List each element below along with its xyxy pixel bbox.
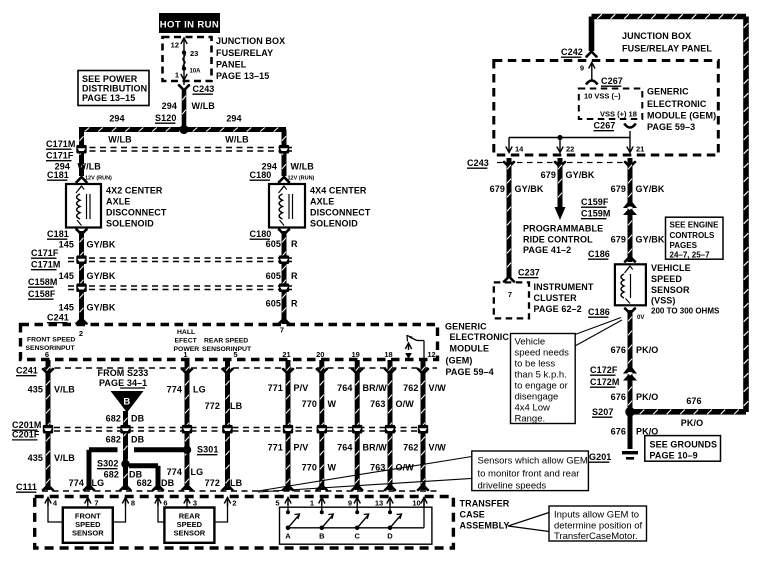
svg-text:to monitor front and rear: to monitor front and rear <box>478 469 580 480</box>
svg-text:C171M: C171M <box>46 139 76 149</box>
svg-text:R: R <box>291 299 298 309</box>
svg-text:682: 682 <box>106 414 121 424</box>
svg-text:V/W: V/W <box>429 443 447 453</box>
svg-text:C267: C267 <box>594 121 616 131</box>
svg-text:Range.: Range. <box>515 414 546 425</box>
svg-text:21: 21 <box>636 145 644 154</box>
connector C242 <box>586 52 597 58</box>
svg-text:772: 772 <box>205 478 220 488</box>
svg-text:GENERIC: GENERIC <box>445 322 487 332</box>
svg-text:TRANSFER: TRANSFER <box>460 499 510 509</box>
transfer case motor position switch bank <box>280 507 432 544</box>
GEM (right) box outline <box>494 61 719 156</box>
svg-text:speed needs: speed needs <box>515 348 570 359</box>
svg-text:R: R <box>291 271 298 281</box>
wire 772 LB pin5 to C111 pin2 <box>225 360 230 490</box>
wire 294 W/LB horizontal bus <box>79 127 286 132</box>
svg-text:GY/BK: GY/BK <box>515 184 544 194</box>
svg-text:PAGE 13–15: PAGE 13–15 <box>216 71 269 81</box>
svg-text:GY/BK: GY/BK <box>636 184 665 194</box>
GEM internal wiring to pins 14 22 21 <box>629 131 631 138</box>
svg-text:C241: C241 <box>16 366 38 376</box>
wire W/LB right drop to C180 <box>282 130 287 177</box>
svg-text:FRONT SPEED: FRONT SPEED <box>27 337 75 344</box>
svg-text:605: 605 <box>266 271 281 281</box>
svg-text:5: 5 <box>275 499 279 508</box>
svg-text:W: W <box>328 399 337 409</box>
svg-text:770: 770 <box>302 399 317 409</box>
svg-text:C: C <box>354 532 360 541</box>
svg-text:9: 9 <box>580 64 584 73</box>
wire 676 PK/O from right feed to S207 <box>634 409 746 415</box>
svg-text:770: 770 <box>302 463 317 473</box>
svg-text:PAGE 34–1: PAGE 34–1 <box>99 378 147 388</box>
solenoid 4x4 center axle disconnect <box>269 184 305 228</box>
svg-text:C181: C181 <box>47 170 69 180</box>
connector C171M / C171F dashed lines upper <box>79 147 292 149</box>
svg-text:VEHICLE: VEHICLE <box>651 263 691 273</box>
svg-text:REAR SPEED: REAR SPEED <box>204 338 248 345</box>
svg-text:C172F: C172F <box>590 365 618 375</box>
svg-text:B: B <box>319 532 325 541</box>
svg-text:V/LB: V/LB <box>54 453 75 463</box>
svg-text:PK/O: PK/O <box>636 345 658 355</box>
wire 763 O/W pin18 to transfer case pin13 <box>388 360 393 490</box>
wire 770 W pin20 to transfer case pin1 <box>319 360 324 490</box>
svg-text:LG: LG <box>92 478 105 488</box>
svg-text:682: 682 <box>137 478 152 488</box>
svg-text:Inputs allow GEM to: Inputs allow GEM to <box>554 510 639 521</box>
svg-text:PAGE 41–2: PAGE 41–2 <box>523 245 571 255</box>
svg-text:145: 145 <box>59 271 74 281</box>
svg-text:C186: C186 <box>588 249 610 259</box>
svg-text:22: 22 <box>566 145 574 154</box>
svg-text:C186: C186 <box>588 307 610 317</box>
svg-text:Vehicle: Vehicle <box>515 337 546 348</box>
svg-text:PROGRAMMABLE: PROGRAMMABLE <box>523 224 603 234</box>
VSS dashed sub-box in GEM <box>579 89 643 120</box>
svg-text:W/LB: W/LB <box>225 135 249 145</box>
svg-text:771: 771 <box>268 443 283 453</box>
svg-text:GY/BK: GY/BK <box>566 170 595 180</box>
svg-text:PAGE 59–3: PAGE 59–3 <box>647 122 695 132</box>
svg-text:C237: C237 <box>518 268 540 278</box>
svg-text:C181: C181 <box>47 229 69 239</box>
svg-text:1: 1 <box>175 71 179 80</box>
svg-text:4X2 CENTER: 4X2 CENTER <box>106 186 163 196</box>
svg-text:TransferCaseMotor.: TransferCaseMotor. <box>554 531 638 542</box>
svg-text:LG: LG <box>193 385 206 395</box>
svg-text:ASSEMBLY: ASSEMBLY <box>460 521 510 531</box>
svg-text:2: 2 <box>232 499 236 508</box>
svg-text:W/LB: W/LB <box>291 162 315 172</box>
position switch C <box>355 526 360 531</box>
wire 682 DB from triangle to C111 pin8 <box>123 411 128 490</box>
svg-text:DB: DB <box>131 435 145 445</box>
svg-text:PAGE 10–9: PAGE 10–9 <box>650 451 698 461</box>
junction box fuse/relay panel (left) outline <box>163 37 212 81</box>
svg-text:10: 10 <box>412 499 420 508</box>
svg-text:SENSOR: SENSOR <box>72 529 104 538</box>
svg-text:C243: C243 <box>193 84 215 94</box>
svg-text:V/W: V/W <box>429 383 447 393</box>
svg-text:than 5 k.p.h.: than 5 k.p.h. <box>515 370 567 381</box>
svg-text:S301: S301 <box>197 445 218 455</box>
svg-text:SPEED: SPEED <box>651 274 682 284</box>
wire 682 DB branch from S302 to C111 pin6 <box>129 463 158 468</box>
svg-text:SEE GROUNDS: SEE GROUNDS <box>650 440 718 450</box>
svg-text:C243: C243 <box>467 158 489 168</box>
svg-text:676: 676 <box>686 396 701 406</box>
svg-text:676: 676 <box>611 427 626 437</box>
svg-text:AXLE: AXLE <box>310 197 334 207</box>
svg-text:20: 20 <box>316 350 324 359</box>
svg-text:2: 2 <box>79 329 83 338</box>
svg-text:12V (RUN): 12V (RUN) <box>85 176 112 182</box>
svg-text:8: 8 <box>131 499 135 508</box>
svg-text:14: 14 <box>515 145 524 154</box>
svg-text:10 VSS (–): 10 VSS (–) <box>584 92 621 101</box>
svg-text:5: 5 <box>233 350 237 359</box>
svg-text:771: 771 <box>268 383 283 393</box>
svg-text:S207: S207 <box>592 407 613 417</box>
svg-text:7: 7 <box>280 326 284 335</box>
connector C241 right above GEM pin 7 <box>279 319 290 325</box>
svg-text:682: 682 <box>106 435 121 445</box>
svg-text:C180: C180 <box>250 229 272 239</box>
svg-text:SENSOR: SENSOR <box>651 285 690 295</box>
svg-text:LB: LB <box>230 401 243 411</box>
svg-text:G201: G201 <box>589 452 611 462</box>
svg-text:C111: C111 <box>16 482 37 492</box>
svg-text:P/V: P/V <box>294 383 309 393</box>
rear speed sensor <box>164 508 214 543</box>
svg-text:676: 676 <box>611 345 626 355</box>
svg-text:PAGES: PAGES <box>670 241 698 250</box>
svg-text:GENERIC: GENERIC <box>647 87 689 97</box>
svg-text:19: 19 <box>352 350 360 359</box>
svg-text:6: 6 <box>45 350 49 359</box>
svg-text:C201F: C201F <box>12 430 40 440</box>
GEM internal switch near pin 12 <box>423 341 425 359</box>
svg-text:DB: DB <box>131 414 145 424</box>
wire 676 PK/O VSS to C172 <box>628 310 633 410</box>
svg-text:Sensors which allow GEM: Sensors which allow GEM <box>478 456 588 467</box>
connector C267 upper <box>586 81 598 85</box>
svg-text:SENSORINPUT: SENSORINPUT <box>202 346 252 353</box>
svg-text:R: R <box>291 239 298 249</box>
svg-text:SOLENOID: SOLENOID <box>310 219 358 229</box>
svg-text:C158M: C158M <box>28 277 58 287</box>
svg-text:O/W: O/W <box>396 399 415 409</box>
svg-text:7: 7 <box>508 290 512 299</box>
svg-text:HALL: HALL <box>177 329 195 336</box>
svg-text:294: 294 <box>162 101 177 111</box>
svg-text:AXLE: AXLE <box>106 197 130 207</box>
svg-text:EFECT: EFECT <box>175 338 198 345</box>
svg-text:1: 1 <box>183 350 187 359</box>
svg-text:SENSOR: SENSOR <box>174 529 206 538</box>
svg-text:C180: C180 <box>250 170 272 180</box>
svg-text:294: 294 <box>226 114 241 124</box>
connector C201M / C201F dashed lines <box>54 427 425 429</box>
svg-text:772: 772 <box>205 401 220 411</box>
svg-text:C267: C267 <box>601 76 623 86</box>
fuse 23 10A inside junction box <box>183 39 185 79</box>
svg-text:DB: DB <box>161 478 175 488</box>
svg-text:679: 679 <box>611 184 626 194</box>
wire 605 R segment 1 <box>282 231 287 324</box>
svg-text:679: 679 <box>490 184 505 194</box>
wire 145 GY/BK segment 1 <box>79 231 84 324</box>
svg-text:CASE: CASE <box>460 510 485 520</box>
wire 679 GY/BK to instrument cluster <box>507 158 512 277</box>
svg-text:GY/BK: GY/BK <box>636 235 665 245</box>
svg-text:18: 18 <box>384 350 392 359</box>
svg-text:JUNCTION BOX: JUNCTION BOX <box>622 31 691 41</box>
front speed sensor <box>63 508 113 543</box>
splice S302 on 682 DB <box>121 460 129 468</box>
svg-text:24–7, 25–7: 24–7, 25–7 <box>670 251 711 260</box>
svg-text:SEE ENGINE: SEE ENGINE <box>670 221 720 230</box>
svg-text:C159F: C159F <box>581 197 609 207</box>
svg-text:to be less: to be less <box>515 359 556 370</box>
svg-text:D: D <box>387 532 393 541</box>
callout vehicle speed needs <box>575 318 621 335</box>
connector C267 lower <box>624 124 636 128</box>
wire 435 V/LB pin6 to C111 pin4 <box>46 360 51 490</box>
svg-text:determine position of: determine position of <box>554 521 643 532</box>
callout inputs allow GEM <box>508 513 549 532</box>
svg-text:764: 764 <box>337 443 352 453</box>
svg-text:SENSORINPUT: SENSORINPUT <box>26 345 76 352</box>
svg-text:S120: S120 <box>155 113 176 123</box>
svg-text:435: 435 <box>28 385 43 395</box>
power tag HOT IN RUN <box>159 13 220 33</box>
svg-text:INSTRUMENT: INSTRUMENT <box>534 282 594 292</box>
svg-text:P/V: P/V <box>294 443 309 453</box>
wire 679 GY/BK to VSS <box>628 158 633 262</box>
svg-text:676: 676 <box>611 392 626 402</box>
svg-text:PAGE 62–2: PAGE 62–2 <box>534 304 582 314</box>
svg-text:9: 9 <box>348 499 352 508</box>
svg-text:1: 1 <box>310 499 314 508</box>
wire 774 LG pin1 to C111 pin3 with splice S301 <box>185 360 190 490</box>
svg-text:10A: 10A <box>190 69 202 75</box>
svg-text:200 TO 300 OHMS: 200 TO 300 OHMS <box>651 307 720 316</box>
svg-text:C171F: C171F <box>31 248 59 258</box>
svg-text:DISTRIBUTION: DISTRIBUTION <box>82 84 147 94</box>
svg-text:7: 7 <box>94 499 98 508</box>
svg-text:294: 294 <box>109 114 124 124</box>
svg-text:763: 763 <box>370 399 385 409</box>
svg-text:W/LB: W/LB <box>78 162 102 172</box>
svg-text:C158F: C158F <box>28 289 56 299</box>
svg-text:762: 762 <box>403 383 418 393</box>
svg-text:CONTROLS: CONTROLS <box>670 231 716 240</box>
svg-text:C159M: C159M <box>581 209 611 219</box>
svg-text:21: 21 <box>282 350 290 359</box>
svg-text:MODULE: MODULE <box>450 344 490 354</box>
svg-text:GY/BK: GY/BK <box>87 271 116 281</box>
svg-text:PAGE 59–4: PAGE 59–4 <box>446 367 494 377</box>
svg-text:SEE POWER: SEE POWER <box>82 74 138 84</box>
note box SEE GROUNDS <box>645 436 721 462</box>
svg-text:774: 774 <box>167 385 182 395</box>
svg-text:145: 145 <box>59 240 74 250</box>
svg-text:LB: LB <box>230 478 243 488</box>
svg-text:C242: C242 <box>561 47 583 57</box>
svg-text:V/LB: V/LB <box>54 385 75 395</box>
connector C111 dashed line <box>42 490 437 492</box>
svg-text:C172M: C172M <box>590 377 620 387</box>
transfer case assembly box <box>35 497 454 549</box>
svg-text:C171F: C171F <box>46 151 74 161</box>
svg-text:LG: LG <box>191 467 204 477</box>
svg-text:12V (RUN): 12V (RUN) <box>288 176 315 182</box>
svg-text:435: 435 <box>28 453 43 463</box>
note box SEE ENGINE CONTROLS <box>666 217 724 259</box>
svg-text:3: 3 <box>193 499 197 508</box>
svg-text:W/LB: W/LB <box>192 101 216 111</box>
svg-text:MODULE (GEM): MODULE (GEM) <box>647 111 716 121</box>
svg-text:HOT IN RUN: HOT IN RUN <box>160 20 219 31</box>
wire 762 V/W pin12 to transfer case pin10 <box>421 360 426 490</box>
svg-text:ELECTRONIC: ELECTRONIC <box>450 332 510 342</box>
svg-text:(VSS): (VSS) <box>651 296 676 306</box>
svg-text:PANEL: PANEL <box>216 60 247 70</box>
svg-text:6: 6 <box>163 499 167 508</box>
connector C243 <box>183 81 185 85</box>
svg-text:GY/BK: GY/BK <box>87 303 116 313</box>
svg-text:FUSE/RELAY: FUSE/RELAY <box>216 48 273 58</box>
svg-text:FUSE/RELAY PANEL: FUSE/RELAY PANEL <box>622 44 712 54</box>
svg-text:GY/BK: GY/BK <box>87 240 116 250</box>
svg-text:DISCONNECT: DISCONNECT <box>310 208 371 218</box>
svg-text:23: 23 <box>190 49 198 58</box>
svg-text:774: 774 <box>69 478 84 488</box>
svg-text:ELECTRONIC: ELECTRONIC <box>647 99 707 109</box>
svg-text:0V: 0V <box>637 315 644 321</box>
svg-text:RIDE CONTROL: RIDE CONTROL <box>523 235 593 245</box>
svg-text:12: 12 <box>427 350 435 359</box>
svg-text:145: 145 <box>59 303 74 313</box>
svg-text:B: B <box>123 397 130 408</box>
svg-text:13: 13 <box>375 499 383 508</box>
wire 771 P/V pin21 to transfer case pin5 <box>286 360 291 490</box>
svg-text:S302: S302 <box>97 459 118 469</box>
svg-text:682: 682 <box>104 470 119 480</box>
svg-text:VSS (+) 18: VSS (+) 18 <box>600 110 637 119</box>
svg-text:774: 774 <box>167 467 182 477</box>
connector C171F / C171M dashed lines lower <box>68 257 292 259</box>
wire 679 GY/BK to programmable ride control <box>558 158 563 210</box>
GEM module strip box <box>21 325 438 360</box>
svg-text:12: 12 <box>171 41 179 50</box>
svg-text:DISCONNECT: DISCONNECT <box>106 208 167 218</box>
svg-text:SOLENOID: SOLENOID <box>106 219 154 229</box>
svg-text:driveline speeds: driveline speeds <box>478 481 547 492</box>
svg-text:4x4 Low: 4x4 Low <box>515 403 551 414</box>
svg-text:CLUSTER: CLUSTER <box>534 293 578 303</box>
svg-text:W/LB: W/LB <box>108 135 132 145</box>
svg-text:PAGE 13–15: PAGE 13–15 <box>82 93 135 103</box>
wire 764 BR/W pin19 to transfer case pin9 <box>355 360 360 490</box>
svg-text:BR/W: BR/W <box>363 443 388 453</box>
svg-text:679: 679 <box>541 170 556 180</box>
svg-text:4X4 CENTER: 4X4 CENTER <box>310 186 367 196</box>
svg-text:764: 764 <box>337 383 352 393</box>
svg-text:(GEM): (GEM) <box>446 356 473 366</box>
svg-text:A: A <box>285 532 291 541</box>
wire hot feed top right <box>592 14 747 20</box>
svg-text:679: 679 <box>611 235 626 245</box>
svg-text:762: 762 <box>403 443 418 453</box>
svg-text:FROM S233: FROM S233 <box>98 368 149 378</box>
svg-text:C201M: C201M <box>12 420 42 430</box>
connector C241 below GEM dashed line <box>44 367 437 369</box>
svg-text:C171M: C171M <box>31 260 61 270</box>
svg-text:W: W <box>328 463 337 473</box>
connector C158M / C158F dashed lines <box>68 285 292 287</box>
position switch D <box>388 526 393 531</box>
svg-text:PK/O: PK/O <box>681 418 703 428</box>
wire W/LB left drop to C181 <box>79 130 84 177</box>
position switch A <box>286 526 291 531</box>
connector C243 right <box>497 162 627 164</box>
svg-text:605: 605 <box>266 299 281 309</box>
svg-text:605: 605 <box>266 239 281 249</box>
svg-text:C241: C241 <box>47 313 69 323</box>
position switch B <box>320 526 325 531</box>
svg-text:JUNCTION BOX: JUNCTION BOX <box>216 36 285 46</box>
svg-text:PK/O: PK/O <box>636 392 658 402</box>
callout sensors which allow GEM <box>258 457 472 492</box>
svg-text:to engage or: to engage or <box>515 381 568 392</box>
note box SEE POWER DISTRIBUTION <box>78 71 149 106</box>
solenoid 4x2 center axle disconnect <box>66 184 101 228</box>
svg-text:BR/W: BR/W <box>363 383 388 393</box>
vehicle speed sensor VSS <box>615 264 646 305</box>
wire 774 LG branch from S301 to C111 pin7 (crossover) <box>134 447 184 452</box>
svg-text:disengage: disengage <box>515 392 559 403</box>
splice S301 <box>183 446 191 454</box>
